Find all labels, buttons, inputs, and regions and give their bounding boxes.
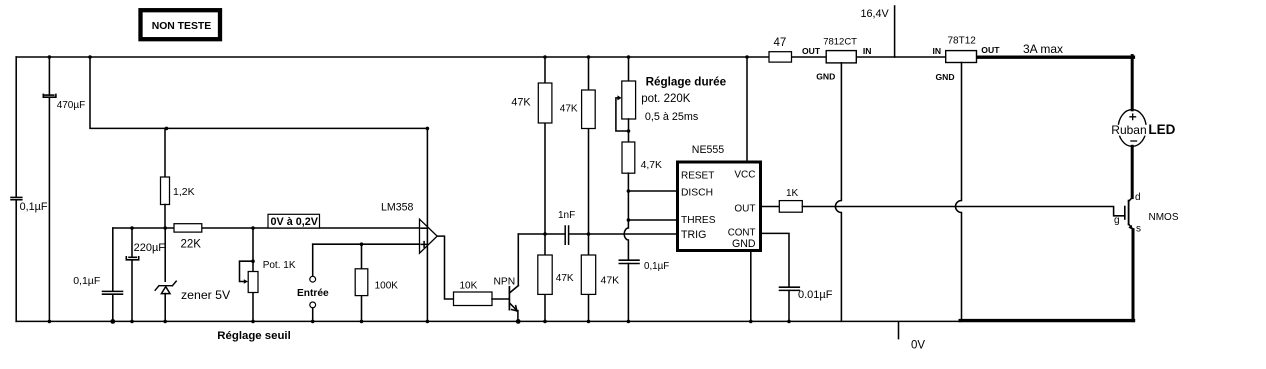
svg-text:47K: 47K bbox=[560, 103, 578, 114]
regulator U 7812CT box bbox=[826, 51, 856, 63]
svg-text:LM358: LM358 bbox=[381, 202, 413, 214]
wire pot 220K to 4,7K bbox=[628, 119, 630, 142]
wire 470µF column bbox=[48, 57, 50, 321]
wire trigger rail y=234 bbox=[518, 233, 677, 235]
svg-text:THRES: THRES bbox=[681, 215, 716, 226]
wire OUT pin to 1K bbox=[762, 206, 780, 208]
svg-text:zener 5V: zener 5V bbox=[181, 288, 231, 302]
svg-text:GND: GND bbox=[732, 238, 756, 250]
capacitor 0.01µF plates bbox=[780, 287, 800, 290]
wire 16,4V input drop bbox=[894, 6, 896, 57]
wire NPN emitter to ground bbox=[517, 311, 519, 322]
wire 47K column A lower bbox=[544, 234, 546, 321]
svg-text:s: s bbox=[1136, 224, 1141, 235]
IC U NE555 box bbox=[678, 162, 761, 251]
svg-text:1nF: 1nF bbox=[558, 210, 575, 221]
wire op-amp + input rail y=242.2 bbox=[313, 243, 420, 245]
wire thick output rail after 78T12 bbox=[977, 56, 1134, 59]
wire NPN collector up to trigger rail bbox=[517, 234, 519, 286]
resistor R 47K body B bbox=[582, 90, 596, 129]
svg-text:0,1µF: 0,1µF bbox=[644, 261, 669, 272]
svg-text:IN: IN bbox=[933, 46, 942, 56]
wire 0,1µF column x=112.8 bbox=[112, 228, 114, 321]
svg-text:3A max: 3A max bbox=[1023, 42, 1063, 56]
wire GND pin to ground bbox=[750, 252, 752, 321]
label Ruban bbox=[1109, 125, 1148, 136]
svg-text:47: 47 bbox=[774, 37, 787, 49]
label NON TESTE box bbox=[141, 10, 221, 39]
wire 0.01µF to ground bbox=[788, 291, 790, 322]
resistor R 47K body C bbox=[538, 255, 552, 294]
svg-text:TRIG: TRIG bbox=[681, 229, 706, 241]
resistor R 47K body D bbox=[581, 255, 595, 294]
wire 1,2K to threshold node bbox=[164, 205, 166, 229]
wire thick bottom rail right bbox=[960, 319, 1133, 322]
wire 7812 GND with hop over out rail bbox=[835, 63, 841, 322]
resistor R 100K body bbox=[355, 269, 368, 296]
LED D1 Ruban circle bbox=[1118, 110, 1146, 147]
svg-text:0,1µF: 0,1µF bbox=[20, 201, 48, 213]
svg-text:NMOS: NMOS bbox=[1149, 212, 1179, 223]
svg-text:GND: GND bbox=[936, 72, 955, 82]
capacitor 0,1µF plates x=112.8 bbox=[103, 291, 123, 294]
svg-text:22K: 22K bbox=[181, 238, 202, 250]
wire zener column bbox=[164, 228, 166, 321]
svg-text:4,7K: 4,7K bbox=[641, 160, 662, 171]
wire VCC column bbox=[746, 57, 748, 161]
potentiometer Pot. 1K body bbox=[248, 272, 258, 293]
wire top rail bbox=[16, 56, 769, 58]
diode zener 5V bbox=[155, 281, 176, 293]
op-amp U LM358 triangle bbox=[420, 219, 438, 253]
resistor R 1K body bbox=[779, 201, 802, 213]
svg-text:NE555: NE555 bbox=[692, 144, 724, 156]
wire timing column with hop over trigger rail bbox=[624, 173, 628, 260]
svg-text:47K: 47K bbox=[511, 96, 531, 108]
wire supply branch x=90 over to op-amp column bbox=[90, 57, 427, 128]
op-amp minus input tick bbox=[421, 227, 426, 229]
wire 78T12 GND with hop over out rail bbox=[956, 63, 962, 320]
svg-text:1K: 1K bbox=[786, 188, 799, 199]
transistor Q NMOS bbox=[1125, 197, 1133, 229]
svg-text:g: g bbox=[1114, 215, 1120, 226]
svg-text:78T12: 78T12 bbox=[948, 36, 977, 47]
svg-text:100K: 100K bbox=[375, 280, 399, 291]
wire thick NMOS source down bbox=[1132, 230, 1135, 321]
wire OUT rail to NMOS gate bbox=[802, 207, 1125, 216]
wire op-amp output to 10K bbox=[437, 236, 453, 299]
svg-text:OUT: OUT bbox=[802, 46, 821, 56]
svg-text:VCC: VCC bbox=[734, 169, 755, 180]
wire 0V tick bbox=[898, 322, 900, 339]
svg-text:OUT: OUT bbox=[734, 204, 755, 215]
svg-text:1,2K: 1,2K bbox=[173, 186, 195, 198]
capacitor 0,1µF left edge plates bbox=[11, 197, 22, 199]
wire CONT pin to 0.01µF bbox=[762, 233, 790, 286]
wire pot 220K column top bbox=[628, 57, 630, 81]
svg-text:d: d bbox=[1135, 192, 1141, 203]
wire vertical through LM358 to ground bbox=[426, 128, 428, 321]
svg-text:Pot. 1K: Pot. 1K bbox=[263, 260, 296, 271]
op-amp plus input tick bbox=[421, 242, 426, 247]
svg-text:47K: 47K bbox=[556, 273, 574, 284]
wire top rail between 7812CT and 78T12 bbox=[856, 56, 945, 58]
regulator U 78T12 box bbox=[946, 51, 977, 63]
connector Entrée upper terminal bbox=[312, 244, 314, 276]
svg-text:Réglage durée: Réglage durée bbox=[646, 76, 727, 89]
wire potentiometer 1K column bbox=[252, 228, 254, 321]
wire timing cap to ground bbox=[627, 264, 629, 322]
svg-text:pot. 220K: pot. 220K bbox=[641, 93, 691, 105]
wire 47K column A upper bbox=[544, 57, 546, 234]
svg-text:Entrée: Entrée bbox=[297, 288, 329, 299]
svg-text:CONT: CONT bbox=[728, 228, 756, 239]
wire left edge vertical bbox=[15, 57, 17, 321]
capacitor 1nF plates bbox=[565, 226, 568, 244]
wire THRES pin bbox=[628, 219, 677, 221]
svg-text:10K: 10K bbox=[460, 280, 478, 291]
capacitor 220µF electrolytic plates bbox=[129, 256, 136, 258]
potentiometer pot. 220K body bbox=[622, 81, 636, 119]
resistor R 4,7K body bbox=[622, 142, 635, 173]
svg-text:LED: LED bbox=[1148, 122, 1175, 137]
svg-text:0,1µF: 0,1µF bbox=[73, 275, 100, 287]
wire 47K column B lower bbox=[588, 234, 590, 321]
wire bottom ground rail bbox=[16, 320, 961, 322]
wire 220µF column bbox=[131, 228, 133, 321]
svg-text:0.01µF: 0.01µF bbox=[798, 289, 833, 301]
wire threshold reference rail y=228 bbox=[113, 227, 420, 229]
svg-text:16,4V: 16,4V bbox=[861, 8, 890, 20]
resistor R 47 body bbox=[769, 52, 792, 62]
svg-text:DISCH: DISCH bbox=[681, 187, 713, 198]
svg-text:NPN: NPN bbox=[494, 276, 516, 287]
svg-text:OUT: OUT bbox=[981, 45, 1000, 55]
wire top rail between 47 and 7812CT bbox=[792, 56, 827, 58]
resistor R 22K body bbox=[174, 224, 202, 232]
svg-text:7812CT: 7812CT bbox=[823, 36, 857, 47]
wire 47K column B upper bbox=[588, 57, 590, 234]
resistor R 10K body bbox=[454, 292, 493, 306]
svg-text:Réglage seuil: Réglage seuil bbox=[217, 330, 290, 342]
svg-text:NON TESTE: NON TESTE bbox=[152, 21, 212, 32]
wire DISCH pin bbox=[628, 190, 677, 192]
LED minus mark bbox=[1130, 140, 1137, 142]
capacitor 470µF electrolytic plates bbox=[45, 94, 54, 96]
wire thick LED to NMOS drain bbox=[1131, 146, 1134, 197]
wire 1,2K column upper lead bbox=[164, 128, 166, 177]
svg-text:47K: 47K bbox=[601, 275, 620, 287]
label 0V à 0,2V box bbox=[268, 214, 320, 228]
svg-text:470µF: 470µF bbox=[57, 100, 86, 111]
resistor R 1,2K body bbox=[161, 177, 170, 205]
potentiometer pot. 220K wiper arm bbox=[616, 98, 629, 131]
svg-text:GND: GND bbox=[816, 72, 835, 82]
svg-text:IN: IN bbox=[863, 46, 872, 56]
LED plus mark bbox=[1129, 113, 1136, 120]
svg-text:RESET: RESET bbox=[681, 171, 714, 182]
wire 10K to NPN base bbox=[492, 298, 509, 300]
svg-text:0,5 à 25ms: 0,5 à 25ms bbox=[645, 111, 699, 123]
svg-text:0V à 0,2V: 0V à 0,2V bbox=[271, 216, 319, 228]
connector Entrée lower terminal bbox=[310, 302, 316, 308]
svg-text:0V: 0V bbox=[911, 339, 925, 351]
svg-text:220µF: 220µF bbox=[134, 242, 166, 254]
transistor Q NPN bbox=[509, 286, 518, 311]
wire 100K column bbox=[361, 244, 363, 321]
resistor R 47K body A bbox=[538, 83, 552, 123]
wire thick right vertical to LED bbox=[1131, 56, 1134, 110]
capacitor 0,1µF plates x=628 bbox=[619, 260, 639, 263]
potentiometer Pot. 1K wiper arm bbox=[240, 261, 254, 281]
svg-text:Ruban: Ruban bbox=[1111, 123, 1146, 137]
